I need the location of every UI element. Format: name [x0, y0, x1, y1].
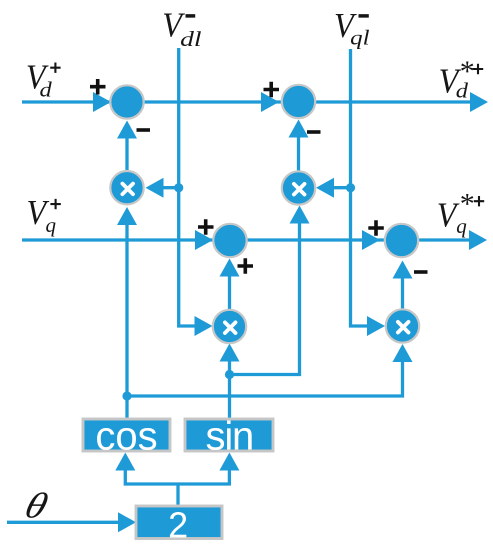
multiplier M4: [386, 309, 419, 342]
plus sign at S3 bottom: [238, 258, 254, 274]
wire stub into 2-block: [176, 484, 179, 506]
svg-text:sin: sin: [206, 414, 254, 458]
summing junction S4: [385, 224, 418, 257]
svg-text:d: d: [40, 78, 53, 102]
svg-text:*: *: [460, 188, 475, 221]
junction dot on sin line: [225, 370, 234, 379]
arrowhead Vdl into M1: [146, 178, 164, 198]
wire cos feed up to M1: [125, 224, 128, 419]
multiplier M3: [213, 310, 246, 343]
arrowhead cos branch into M4: [393, 344, 413, 362]
summing junction S3: [213, 224, 246, 257]
wire M2 output to S2: [297, 136, 300, 172]
arrowhead cos feed into M1: [117, 207, 137, 225]
multiplier M1: [110, 171, 143, 204]
arrowhead Vd output: [470, 92, 488, 112]
block sin: [185, 419, 273, 451]
svg-text:θ: θ: [21, 486, 53, 526]
wire Vd row: [22, 100, 472, 103]
arrowhead into S4: [362, 230, 380, 250]
arrowhead M1 into S1: [117, 121, 137, 139]
wire cos branch to M4: [127, 361, 403, 396]
multiply sign M3: [225, 322, 236, 333]
arrowhead into S2: [261, 92, 279, 112]
multiplier M2: [282, 171, 315, 204]
arrowhead Vql into M2: [316, 178, 334, 198]
junction dot on cos line: [122, 391, 131, 400]
svg-text:q: q: [46, 213, 57, 237]
multiply sign M1: [122, 184, 133, 195]
label Vq+ input: [27, 194, 50, 233]
arrowhead into S1: [93, 92, 111, 112]
svg-text:2: 2: [168, 505, 188, 546]
svg-text:*: *: [460, 55, 475, 88]
arrowhead Vq output: [469, 230, 487, 250]
minus sign at S4: [414, 270, 428, 274]
summing junction S1: [110, 85, 143, 118]
arrowhead Vdl into M3: [195, 316, 213, 336]
arrowhead sin feed into M3: [220, 344, 240, 362]
junction dot on Vql at M2 branch: [346, 183, 355, 192]
wire sin feed up to M3: [228, 360, 231, 419]
plus sign at S2: [264, 82, 280, 98]
arrowhead M2 into S2: [289, 120, 309, 138]
wire Vdl vertical into M3: [179, 48, 196, 326]
wire M3 output to S3: [228, 275, 231, 310]
junction dot on Vdl at M1 branch: [174, 183, 183, 192]
block cos: [83, 419, 170, 451]
wire M4 output to S4: [401, 277, 404, 309]
arrowhead M3 into S3: [220, 259, 240, 277]
label Vd*+ output: [439, 62, 462, 101]
wire cos to 2-block connector: [125, 470, 229, 484]
plus sign at S1: [90, 79, 106, 95]
svg-text:ql: ql: [350, 25, 370, 49]
svg-text:dl: dl: [180, 27, 202, 51]
label Vq*+ output: [437, 196, 460, 235]
wire sin branch to M2: [230, 222, 300, 375]
minus sign at S1: [137, 128, 151, 132]
plus sign at S4: [368, 220, 384, 236]
wire M1 output to S1: [125, 136, 128, 172]
label Vql- top: [334, 7, 357, 46]
arrowhead into sin block: [219, 453, 239, 471]
wire Vql branch to M2: [333, 186, 351, 189]
plus sign at S3 left: [198, 219, 214, 235]
minus sign at S2: [307, 130, 321, 134]
arrowhead into S3: [195, 230, 213, 250]
arrowhead sin branch into M2: [290, 206, 310, 224]
label Vdl- top: [162, 6, 185, 45]
block 2: [136, 506, 222, 539]
multiply sign M4: [398, 322, 409, 333]
arrowhead M4 into S4: [393, 261, 413, 279]
arrowhead into cos block: [115, 453, 135, 471]
wire Vql vertical into M4: [351, 49, 369, 326]
label theta: [21, 486, 53, 526]
wire Vq row: [22, 238, 472, 241]
wire Vdl branch to M1: [162, 186, 179, 189]
wire theta input: [7, 521, 120, 524]
svg-text:cos: cos: [95, 414, 157, 458]
label Vd+ input: [26, 58, 49, 97]
multiply sign M2: [294, 184, 305, 195]
arrowhead Vql into M4: [367, 316, 385, 336]
summing junction S2: [282, 85, 315, 118]
arrowhead theta into 2-block: [118, 512, 136, 532]
